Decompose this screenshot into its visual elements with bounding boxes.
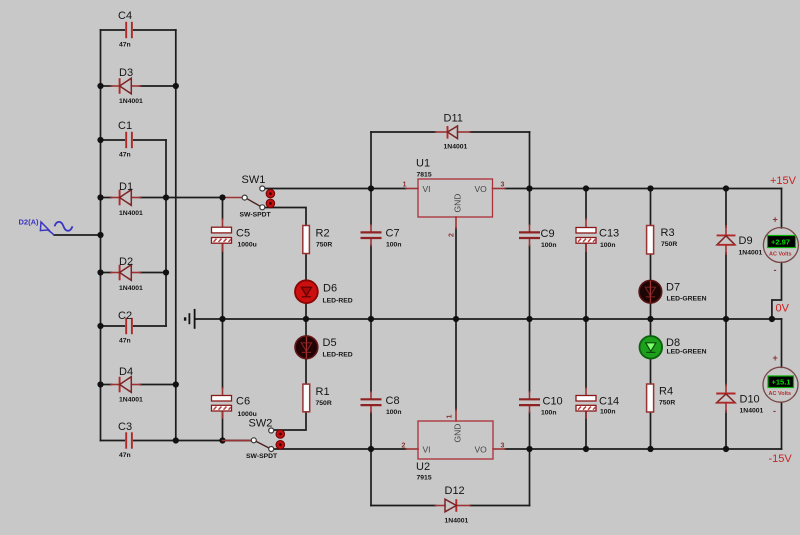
wire: SW1 lower contact to R2 — [265, 208, 306, 226]
svg-text:1: 1 — [403, 182, 407, 189]
wire: C2 row y=326 — [101, 325, 125, 327]
wire: +15V bus drop to voltmeter 1 — [781, 189, 783, 228]
resistor R2 — [303, 226, 333, 254]
LED D7 (LED-GREEN, off) — [639, 280, 707, 303]
wire: R1 to SW2 upper contact — [274, 412, 306, 430]
junction dot (175.8,384.5) — [173, 381, 179, 387]
junction dot (371,449) — [368, 446, 374, 452]
wire: C3 row y=440.5 to SW2 pole — [101, 440, 125, 442]
wire: probe stub y=235 — [54, 234, 100, 236]
junction dot (371,188.5) — [368, 185, 374, 191]
svg-text:D7: D7 — [666, 282, 680, 294]
junction dot (100.5,86) — [97, 83, 103, 89]
svg-text:1N4001: 1N4001 — [740, 408, 764, 415]
svg-text:47n: 47n — [119, 338, 131, 345]
junction dot (586,449) — [583, 446, 589, 452]
wire: 0V bus y=319 — [196, 318, 781, 320]
regulator U1 7815 — [403, 158, 506, 238]
svg-text:GND: GND — [453, 194, 463, 213]
svg-text:1N4001: 1N4001 — [739, 250, 763, 257]
svg-text:D10: D10 — [740, 394, 760, 406]
svg-text:C1: C1 — [118, 120, 132, 132]
wire: D1 row y=197.5 to SW1 pole — [101, 197, 112, 199]
probe D2(A) (blue AC probe) — [19, 218, 73, 236]
svg-text:VI: VI — [423, 184, 431, 194]
junction dot (166,197.5) — [163, 194, 169, 200]
svg-text:D6: D6 — [323, 283, 337, 295]
svg-text:-: - — [774, 265, 777, 275]
svg-text:1N4001: 1N4001 — [444, 144, 468, 151]
junction dot (306,319) — [303, 316, 309, 322]
svg-text:C3: C3 — [118, 421, 132, 433]
diode D10 — [716, 385, 763, 415]
junction dot (529.5,449) — [526, 446, 532, 452]
diode D3 — [111, 67, 143, 105]
svg-text:2: 2 — [449, 233, 456, 237]
wire: C7/C8 column x=371 — [370, 132, 372, 225]
svg-text:1N4001: 1N4001 — [119, 285, 143, 292]
junction dot (175.8,86) — [173, 83, 179, 89]
svg-text:100n: 100n — [386, 242, 402, 249]
junction dot (100.5,272.5) — [97, 269, 103, 275]
diode D11 — [436, 113, 471, 151]
svg-text:+: + — [773, 215, 778, 225]
svg-text:R3: R3 — [661, 227, 675, 239]
junction dot (726,319) — [723, 316, 729, 322]
LED D5 (LED-RED, off) — [295, 336, 353, 359]
svg-text:U2: U2 — [416, 461, 430, 473]
svg-text:SW1: SW1 — [242, 174, 266, 186]
wire: C6 column x=222.5 — [222, 319, 224, 388]
svg-text:LED-RED: LED-RED — [323, 298, 353, 305]
svg-text:LED-RED: LED-RED — [323, 352, 353, 359]
svg-text:750R: 750R — [316, 242, 332, 249]
svg-text:C8: C8 — [386, 395, 400, 407]
diode D2 — [111, 256, 143, 292]
wire: R2 to D6 — [305, 254, 307, 281]
junction dot (222.5,197.5) — [219, 194, 225, 200]
capacitor C3 — [118, 421, 132, 459]
svg-text:C6: C6 — [236, 396, 250, 408]
junction dot (529.5,319) — [526, 316, 532, 322]
svg-text:R2: R2 — [316, 228, 330, 240]
capacitor C13 (electrolytic) — [576, 219, 619, 251]
capacitor C2 — [118, 310, 132, 345]
svg-text:D11: D11 — [444, 113, 463, 125]
capacitor C7 — [361, 225, 402, 249]
resistor R3 — [647, 226, 678, 255]
svg-text:C7: C7 — [386, 228, 400, 240]
svg-text:+2.97: +2.97 — [771, 237, 790, 246]
capacitor C6 (electrolytic) — [212, 388, 257, 418]
svg-text:U1: U1 — [416, 158, 430, 170]
junction dot (650.5,188.5) — [647, 185, 653, 191]
wire: bottom -15V bus y=449 — [274, 448, 406, 450]
junction dot (371,319) — [368, 316, 374, 322]
wire: C4 row y=30 — [101, 29, 125, 31]
svg-text:7915: 7915 — [417, 475, 432, 482]
svg-text:R4: R4 — [659, 386, 673, 398]
junction dot (650.5,449) — [647, 446, 653, 452]
svg-text:VI: VI — [423, 445, 431, 455]
svg-text:D12: D12 — [445, 485, 465, 497]
svg-text:1N4001: 1N4001 — [445, 518, 469, 525]
svg-text:C5: C5 — [236, 228, 250, 240]
svg-text:100n: 100n — [386, 409, 402, 416]
svg-text:3: 3 — [501, 443, 505, 450]
svg-text:-: - — [773, 406, 776, 416]
svg-text:47n: 47n — [119, 42, 131, 49]
diode D4 — [111, 366, 143, 404]
junction dot (726,188.5) — [723, 185, 729, 191]
junction dot (456,319) — [453, 316, 459, 322]
svg-text:1N4001: 1N4001 — [119, 98, 143, 105]
capacitor C8 — [361, 392, 402, 416]
wire: D6 to 0V bus — [305, 303, 307, 319]
wire: -15V bus rise to voltmeter 2 — [781, 403, 783, 450]
junction dot (222.5,440.5) — [219, 437, 225, 443]
svg-text:100n: 100n — [600, 409, 616, 416]
svg-text:-15V: -15V — [769, 453, 793, 465]
svg-text:750R: 750R — [659, 400, 675, 407]
capacitor C14 (electrolytic) — [576, 388, 619, 418]
svg-text:SW2: SW2 — [249, 418, 273, 430]
junction dot (771.9,319) — [769, 316, 775, 322]
svg-text:+: + — [773, 353, 778, 363]
svg-text:D3: D3 — [119, 67, 133, 79]
wire: C9/C10 column x=529.5 — [529, 132, 531, 225]
junction dot (726,449) — [723, 446, 729, 452]
resistor R1 — [303, 384, 332, 412]
junction dot (100.5,140) — [97, 137, 103, 143]
svg-text:100n: 100n — [541, 410, 557, 417]
wire: D3 row y=86 — [101, 85, 112, 87]
svg-text:D9: D9 — [739, 235, 753, 247]
junction dot (586,188.5) — [583, 185, 589, 191]
wire: C13/C14 column x=586 — [585, 189, 587, 220]
wire: voltmeter1 minus jog to 0V bus — [772, 263, 782, 320]
svg-text:D2(A): D2(A) — [19, 218, 40, 227]
svg-text:R1: R1 — [316, 386, 330, 398]
capacitor C10 — [519, 392, 563, 417]
svg-text:7815: 7815 — [417, 172, 432, 179]
wire: left column right vertical x=175.8 — [175, 30, 177, 441]
svg-text:+15.1: +15.1 — [772, 378, 791, 387]
wire: D2 row y=272.5 — [101, 272, 112, 274]
svg-text:D4: D4 — [119, 366, 133, 378]
svg-text:750R: 750R — [661, 241, 677, 248]
regulator U2 7915 — [402, 410, 506, 482]
svg-text:100n: 100n — [541, 242, 557, 249]
LED D8 (LED-GREEN, lit) — [640, 336, 707, 359]
svg-text:1N4001: 1N4001 — [119, 210, 143, 217]
svg-text:47n: 47n — [119, 152, 131, 159]
svg-text:D5: D5 — [323, 337, 337, 349]
wire: D5 to R1 — [305, 358, 307, 384]
svg-text:1: 1 — [447, 415, 454, 419]
svg-text:D8: D8 — [666, 337, 680, 349]
wire: inner vertical x=166 (C1-D1-D2-C2) — [165, 140, 167, 326]
wire: SW1 pole lead — [223, 197, 243, 199]
svg-text:C2: C2 — [118, 310, 132, 322]
svg-text:VO: VO — [475, 445, 488, 455]
svg-text:C4: C4 — [118, 10, 132, 22]
svg-text:47n: 47n — [119, 452, 131, 459]
wire: C5 column x=222.5 — [222, 198, 224, 220]
svg-text:AC Volts: AC Volts — [769, 391, 792, 397]
wire: D4 row y=384.5 — [101, 384, 112, 386]
wire: D9/D10 column x=726 — [725, 189, 727, 228]
wire: top +15V bus y=188.5 — [265, 188, 406, 190]
svg-text:1N4001: 1N4001 — [119, 397, 143, 404]
wire: 0V bus to D5 — [305, 319, 307, 336]
svg-text:VO: VO — [475, 184, 488, 194]
LED D6 (LED-RED, lit) — [295, 280, 353, 304]
wire: D12 row y=505.5 — [371, 505, 436, 507]
svg-text:2: 2 — [402, 443, 406, 450]
svg-text:100n: 100n — [600, 242, 616, 249]
capacitor C4 — [118, 10, 132, 49]
svg-text:0V: 0V — [776, 303, 790, 315]
voltmeter VM1 — [763, 215, 798, 276]
wire: 0V bus to voltmeter2 plus — [781, 319, 783, 367]
junction dot (222.5,319) — [219, 316, 225, 322]
svg-text:LED-GREEN: LED-GREEN — [667, 349, 707, 356]
junction dot (650.5,319) — [647, 316, 653, 322]
svg-text:SW-SPDT: SW-SPDT — [240, 212, 272, 219]
ground reference symbol (battery style) — [184, 309, 195, 329]
junction dot (100.5,326) — [97, 323, 103, 329]
svg-text:C9: C9 — [541, 228, 555, 240]
wire: C1 row y=140 — [101, 139, 125, 141]
svg-text:C10: C10 — [543, 396, 563, 408]
resistor R4 — [647, 384, 676, 412]
svg-text:C14: C14 — [599, 396, 619, 408]
junction dot (100.5,235) probe tap — [97, 232, 103, 238]
wire: D11 row y=132 — [371, 131, 436, 133]
junction dot (529.5,188.5) — [526, 185, 532, 191]
svg-text:3: 3 — [501, 182, 505, 189]
junction dot (586,319) — [583, 316, 589, 322]
junction dot (166,272.5) — [163, 269, 169, 275]
svg-text:1000u: 1000u — [238, 242, 257, 249]
switch SW2 (SW-SPDT) — [223, 418, 285, 461]
svg-text:C13: C13 — [599, 228, 619, 240]
wire: U1 GND pin column — [455, 228, 457, 319]
junction dot (100.5,197.5) — [97, 194, 103, 200]
svg-text:D2: D2 — [119, 256, 133, 268]
svg-text:SW-SPDT: SW-SPDT — [246, 453, 278, 460]
wire: U2 GND pin column — [455, 319, 457, 410]
diode D1 — [111, 181, 143, 217]
capacitor C1 — [118, 120, 132, 159]
diode D9 — [717, 226, 763, 257]
voltmeter VM2 — [763, 353, 798, 416]
capacitor C9 — [519, 225, 557, 249]
svg-text:GND: GND — [453, 424, 463, 443]
svg-text:LED-GREEN: LED-GREEN — [667, 296, 707, 303]
svg-text:+15V: +15V — [770, 175, 797, 187]
svg-text:750R: 750R — [316, 400, 332, 407]
wire: left column vertical x=100.5 — [100, 30, 102, 441]
switch SW1 (SW-SPDT) — [240, 174, 275, 219]
diode D12 — [436, 485, 471, 525]
junction dot (100.5,384.5) — [97, 381, 103, 387]
svg-text:AC Volts: AC Volts — [769, 252, 792, 258]
capacitor C5 (electrolytic) — [212, 219, 257, 251]
junction dot (175.8,440.5) — [173, 437, 179, 443]
wire: R3/D7/D8/R4 column x=650.5 — [650, 189, 652, 226]
svg-text:D1: D1 — [119, 181, 133, 193]
